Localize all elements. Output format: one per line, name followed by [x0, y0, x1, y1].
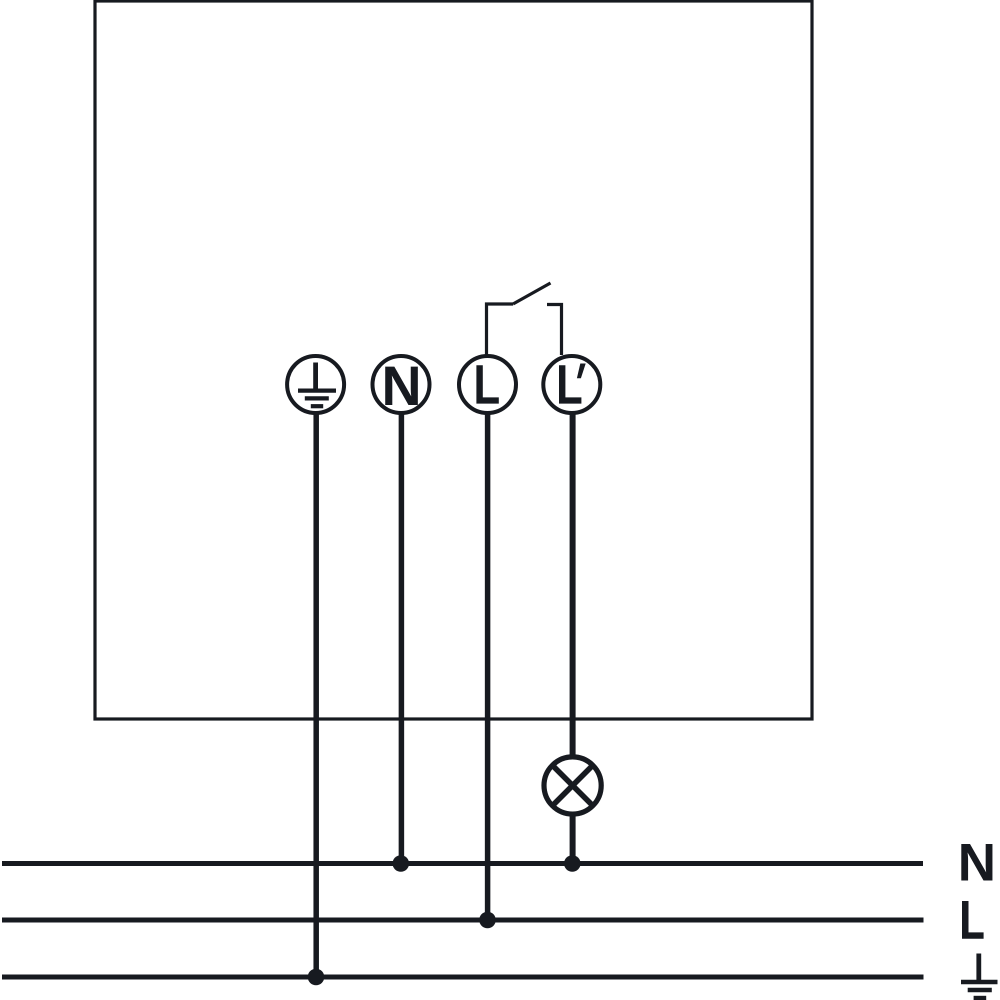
- junction N-wire / N-bus: [393, 855, 410, 872]
- wire L' lower (lamp down to N bus): [570, 811, 576, 861]
- lamp E1 (load): [544, 757, 601, 814]
- terminal N: [373, 355, 430, 417]
- wire L (L terminal down to L bus): [485, 412, 491, 920]
- wire N (N terminal down to N bus): [399, 412, 405, 861]
- wire L' upper (L' terminal down to lamp): [570, 412, 576, 760]
- terminal PE (protective earth): [287, 356, 344, 413]
- junction L-wire / L-bus: [479, 912, 496, 929]
- bus N (top mains line): [2, 861, 923, 866]
- wire PE (earth terminal down to PE bus): [313, 412, 319, 977]
- svg-text:N: N: [381, 355, 421, 417]
- junction PE-wire / PE-bus: [308, 969, 325, 986]
- terminal L': [543, 356, 600, 413]
- device outline box: [95, 1, 812, 719]
- switch S (internal relay contact between L and L'): [487, 283, 562, 355]
- svg-text:N: N: [958, 833, 996, 892]
- ground symbol (bottom right bus name): [961, 954, 998, 999]
- bus L (middle mains line): [2, 918, 924, 923]
- label L (bus name): [962, 901, 984, 939]
- bus PE (bottom earth line): [2, 975, 924, 980]
- terminal L: [459, 356, 516, 413]
- junction lamp-wire / N-bus: [564, 855, 581, 872]
